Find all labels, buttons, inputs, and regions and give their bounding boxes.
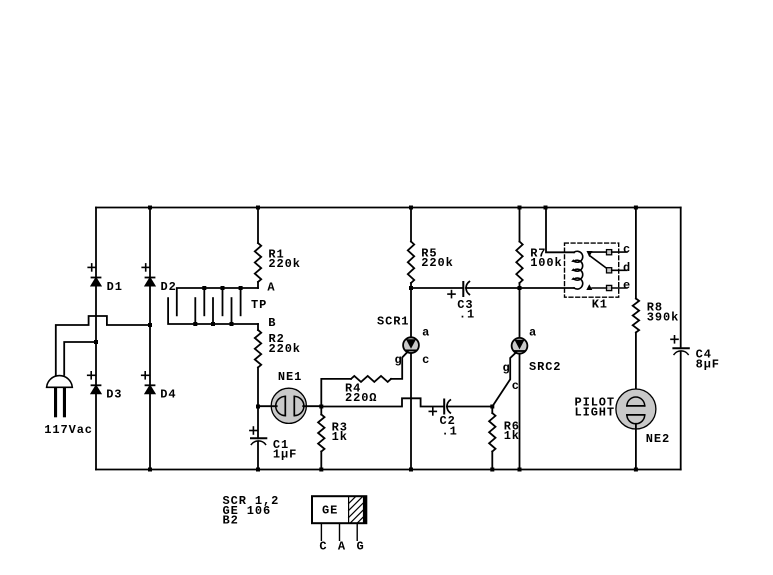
wire node B to R2 [257, 324, 259, 330]
svg-text:NE1: NE1 [278, 370, 302, 384]
svg-text:.1: .1 [442, 425, 458, 439]
wire R5 branch from top bus [410, 208, 412, 242]
wire R7 branch from top bus [519, 208, 521, 242]
node junction plug wire / D2 branch [148, 323, 152, 327]
node junction plug wire / D1 branch [94, 340, 98, 344]
wire left vertical branch (D1/D3) [95, 208, 97, 470]
svg-text:220k: 220k [268, 257, 300, 271]
svg-text:D2: D2 [161, 280, 177, 294]
svg-text:SCR1: SCR1 [377, 315, 409, 329]
wire right edge branch (C4) top section [680, 208, 682, 349]
touch plate TP top comb [177, 286, 258, 315]
node dots on bottom bus [148, 468, 638, 472]
wire SCR1 gate [391, 352, 408, 379]
node R5/C3 junction [409, 286, 413, 290]
svg-text:D1: D1 [107, 280, 123, 294]
wire NE1 node down to C1 [257, 407, 259, 439]
svg-text:c: c [422, 353, 430, 367]
wire R5 bottom to C3 node [410, 283, 412, 288]
svg-text:220k: 220k [421, 256, 453, 270]
svg-text:390k: 390k [647, 310, 679, 324]
wire R1 branch: top bus down to R1 [257, 208, 259, 244]
svg-text:220Ω: 220Ω [345, 391, 377, 405]
svg-text:100k: 100k [530, 256, 562, 270]
resistor R6 [489, 407, 495, 470]
SCR1 thyristor [403, 288, 419, 470]
svg-text:e: e [623, 279, 631, 293]
node NE1 left junction [256, 405, 260, 409]
diode D3 [88, 372, 101, 394]
resistor R8 [633, 299, 639, 333]
svg-text:1k: 1k [504, 429, 520, 443]
svg-text:c: c [512, 379, 520, 393]
svg-text:1k: 1k [332, 430, 348, 444]
wire C3 right segment to R7 node [466, 287, 520, 289]
diode D4 [142, 372, 155, 394]
diode D1 [88, 264, 100, 286]
svg-text:a: a [422, 325, 430, 339]
resistor R4 with leads [321, 376, 391, 407]
wire bottom ground bus [96, 469, 681, 471]
wire R7 bottom lead [519, 283, 521, 288]
svg-text:TP: TP [251, 298, 267, 312]
wire C1 to bottom bus [257, 442, 259, 470]
svg-text:c: c [623, 243, 631, 257]
wire C3 node to relay coil [520, 287, 575, 289]
node dots on top bus [148, 206, 638, 210]
resistor R7 [516, 242, 522, 284]
svg-text:220k: 220k [269, 342, 301, 356]
capacitor C3 [448, 282, 469, 298]
wire from plug right cord to D1 branch [64, 342, 96, 375]
wire C2 right segment to R6 node [447, 406, 492, 408]
resistor R2 [255, 330, 261, 368]
svg-text:G: G [357, 540, 365, 554]
relay K1 [565, 243, 627, 297]
wire R1 bottom lead to node A [257, 282, 259, 288]
svg-text:1µF: 1µF [273, 448, 297, 462]
SCR2 thyristor [512, 288, 528, 470]
touch plate TP bottom comb [168, 298, 258, 326]
capacitor C1 [250, 427, 266, 444]
resistor R3 [318, 407, 324, 470]
wire second vertical branch (D2/D4) [149, 208, 151, 470]
svg-text:d: d [623, 261, 631, 275]
svg-text:g: g [395, 353, 403, 367]
wire R8 to NE2 [635, 333, 637, 398]
wire R8 branch from top bus [635, 208, 637, 299]
node NE1 right junction [319, 405, 323, 409]
wire C3 left segment [411, 287, 463, 289]
wire right edge branch (C4) bottom section [680, 352, 682, 470]
diode D2 [142, 264, 154, 286]
node R7/C3 junction [518, 286, 522, 290]
wire from plug left cord to D2 branch (with hop over D1 branch) [56, 316, 150, 375]
wire NE1 node to C2 (with hop over SCR1 cathode) [321, 398, 444, 406]
transistor package GE 106 outline [312, 496, 366, 540]
svg-text:B2: B2 [223, 514, 239, 528]
wire SCR2 gate [492, 352, 516, 406]
svg-text:g: g [503, 361, 511, 375]
svg-text:C: C [319, 540, 327, 554]
resistor R5 [408, 242, 414, 284]
svg-text:D4: D4 [160, 387, 176, 401]
neon lamp NE2 pilot light [616, 389, 656, 470]
capacitor C2 [429, 400, 450, 415]
svg-text:.1: .1 [459, 307, 475, 321]
svg-text:NE2: NE2 [646, 432, 670, 446]
svg-text:a: a [529, 325, 537, 339]
svg-text:A: A [338, 540, 346, 554]
svg-text:D3: D3 [106, 387, 122, 401]
neon lamp NE1 [258, 388, 321, 423]
svg-text:A: A [267, 281, 275, 295]
svg-text:117Vac: 117Vac [44, 423, 93, 437]
plug 117Vac [47, 376, 73, 418]
wire R2 bottom to NE1 node [257, 368, 259, 407]
wire relay coil feed from top bus [546, 208, 574, 253]
svg-text:GE: GE [322, 503, 338, 517]
svg-text:LIGHT: LIGHT [575, 405, 616, 419]
resistor R1 [255, 243, 261, 282]
node C2/R6/SCR2-gate junction [490, 405, 494, 409]
svg-text:K1: K1 [592, 298, 608, 312]
svg-text:B: B [268, 316, 276, 330]
capacitor C4 [671, 336, 689, 355]
svg-text:8µF: 8µF [696, 357, 720, 371]
svg-text:SRC2: SRC2 [529, 360, 561, 374]
wire top supply bus [96, 207, 681, 209]
